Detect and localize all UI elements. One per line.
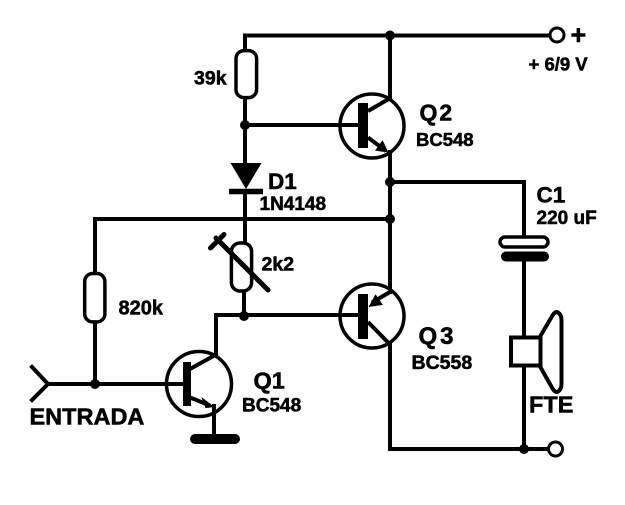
svg-text:Q1: Q1	[254, 368, 285, 394]
svg-text:BC548: BC548	[242, 396, 301, 417]
svg-text:D1: D1	[268, 169, 297, 194]
svg-text:220 uF: 220 uF	[537, 208, 597, 229]
svg-text:BC558: BC558	[412, 352, 473, 374]
svg-text:C1: C1	[537, 183, 566, 208]
svg-text:2k2: 2k2	[262, 254, 295, 276]
svg-text:FTE: FTE	[529, 392, 573, 418]
svg-text:+ 6/9 V: + 6/9 V	[529, 54, 589, 75]
svg-text:Q2: Q2	[420, 100, 455, 126]
svg-text:39k: 39k	[194, 68, 227, 90]
svg-text:820k: 820k	[119, 298, 164, 320]
svg-text:1N4148: 1N4148	[260, 194, 327, 215]
svg-text:+: +	[571, 20, 587, 50]
svg-text:Q3: Q3	[419, 323, 457, 350]
svg-text:ENTRADA: ENTRADA	[30, 404, 145, 430]
svg-text:BC548: BC548	[416, 129, 474, 150]
